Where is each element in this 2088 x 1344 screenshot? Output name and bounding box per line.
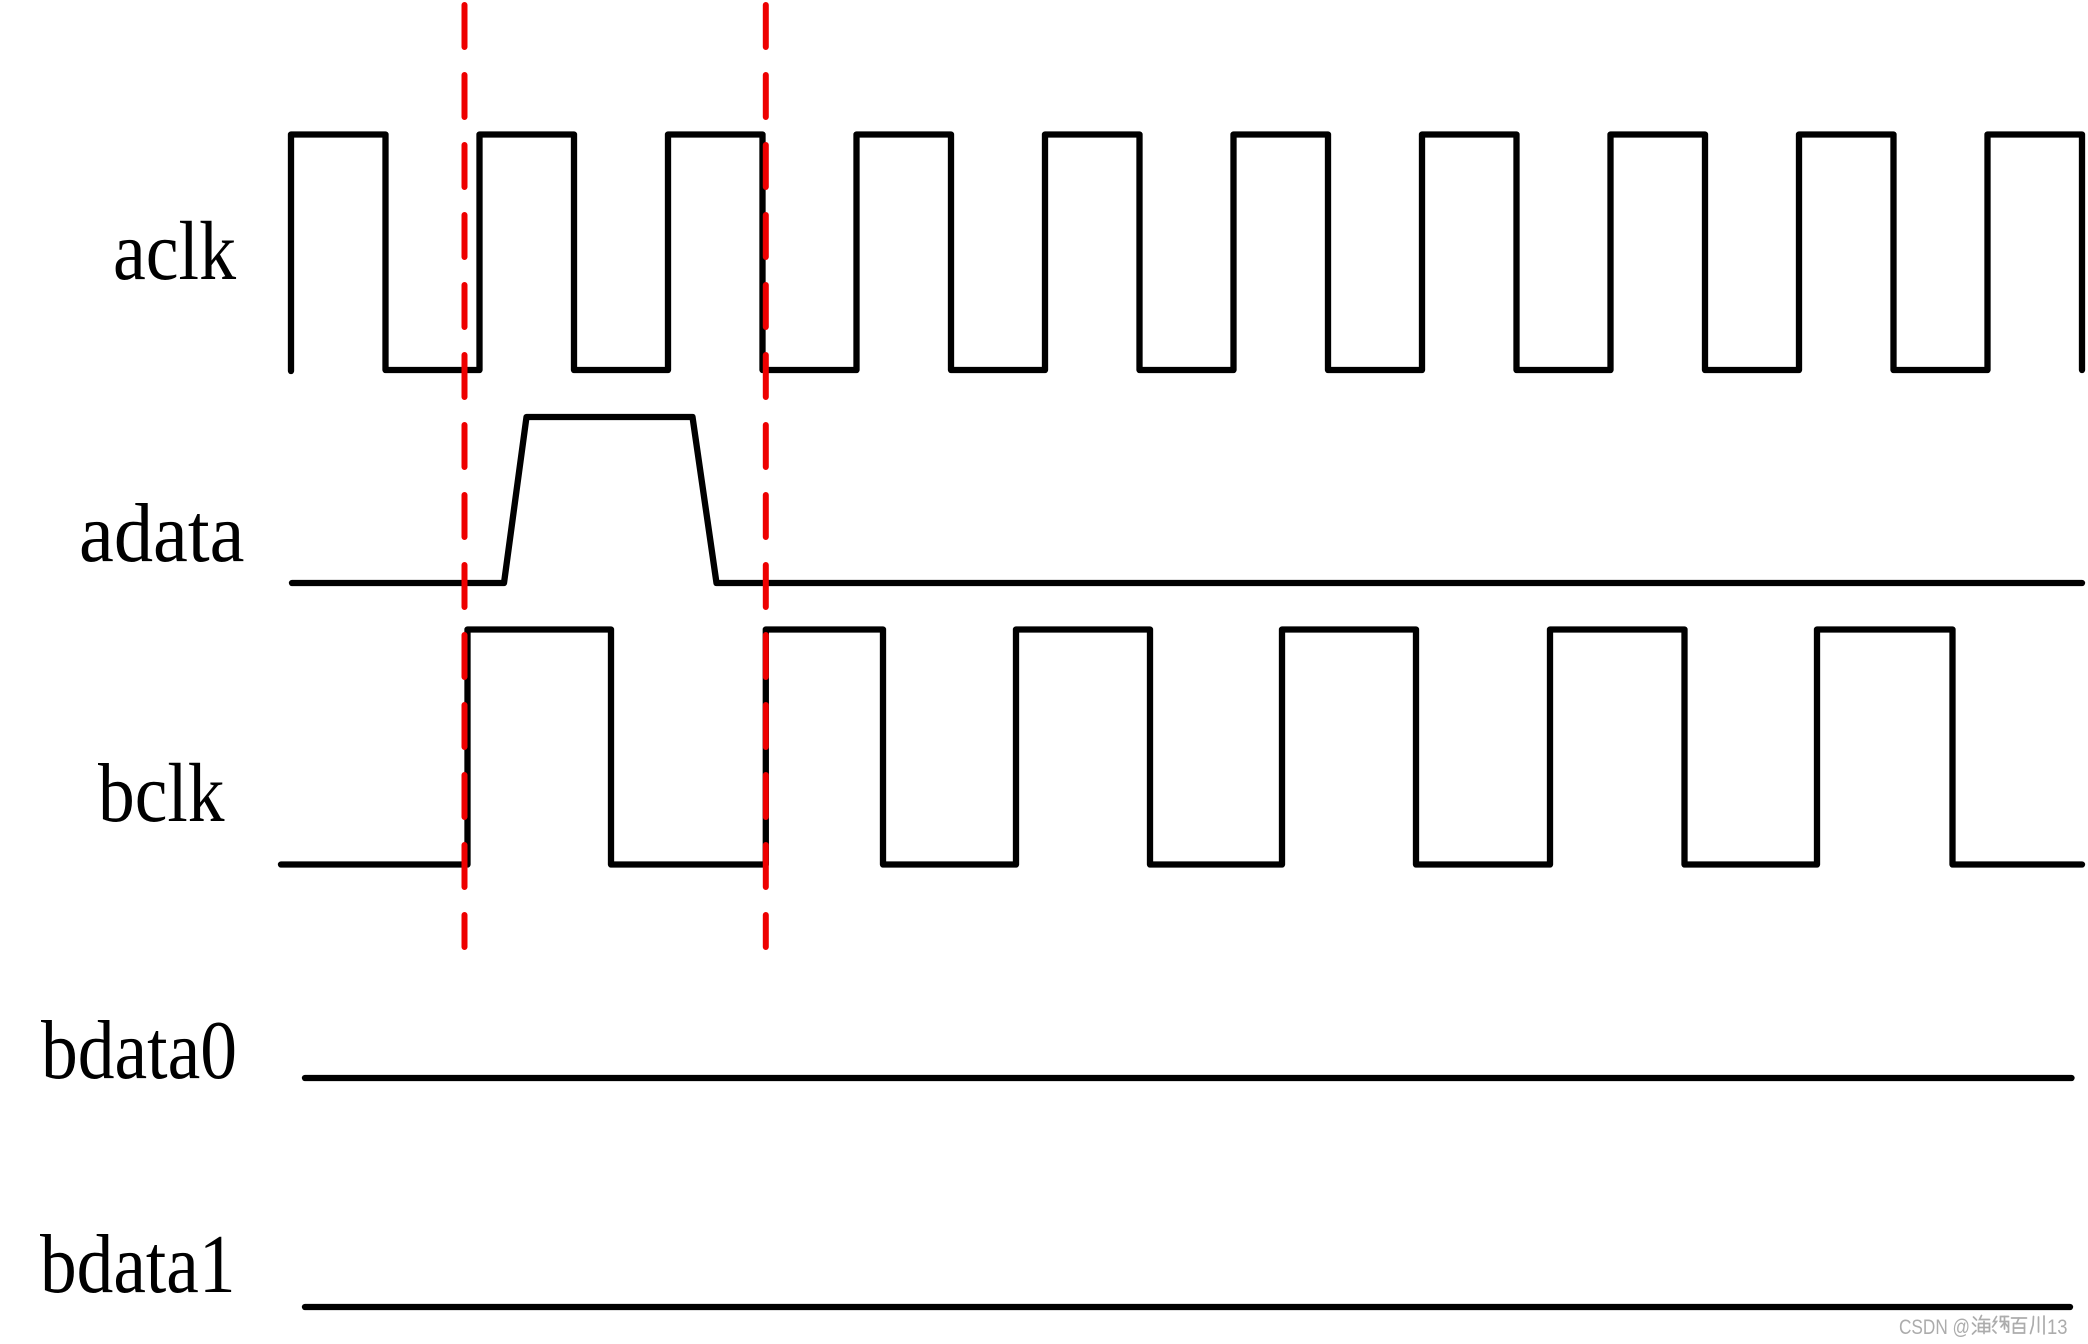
svg-text:adata: adata [79,487,245,580]
wire bdata1 line [305,1304,2070,1310]
marker red dashed line 2 [763,5,769,947]
marker red dashed line 1 [462,5,468,947]
wire aclk waveform [291,135,2082,372]
svg-text:bdata0: bdata0 [41,1004,237,1097]
wire bclk waveform [281,630,2082,865]
svg-text:13: 13 [2047,1316,2068,1339]
svg-text:CSDN @: CSDN @ [1899,1316,1970,1339]
svg-text:aclk: aclk [113,205,236,298]
CJK glyph 川 [2031,1316,2045,1334]
wire bdata0 line [305,1075,2072,1081]
svg-text:bclk: bclk [98,747,225,840]
CJK glyph 海 [1973,1316,1990,1335]
CJK glyph 纳 [1993,1317,2009,1334]
svg-text:bdata1: bdata1 [40,1218,236,1311]
CJK glyph 百 [2012,1318,2027,1333]
wire adata waveform [292,417,2082,583]
watermark CSDN [1899,1316,2068,1340]
